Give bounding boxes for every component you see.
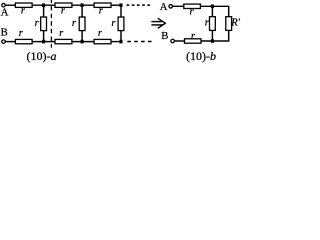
terminal B (left circuit) [2, 40, 6, 44]
wire dashed continuation bottom [127, 41, 152, 43]
wire dashed continuation top [127, 4, 152, 6]
resistor r2 top series [55, 3, 72, 7]
resistor r4 bottom series [15, 39, 32, 43]
resistor r1 top series [15, 3, 32, 7]
resistor r5 bottom series [55, 39, 72, 43]
resistor r shunt 3 [118, 5, 124, 41]
svg-text:B: B [161, 31, 168, 42]
node dot bottom 2 [81, 40, 84, 44]
node dot top right [211, 5, 214, 9]
node dot top 3 [119, 3, 122, 7]
resistor r bottom series (right) [185, 39, 202, 43]
wire right top seg2 [200, 5, 229, 7]
wire bottom rail seg3 [72, 41, 94, 43]
wire bottom rail seg1 [5, 41, 15, 43]
resistor r6 bottom series [94, 39, 111, 43]
wire top rail seg1 [5, 4, 15, 6]
svg-text:R′: R′ [230, 17, 240, 28]
svg-text:(10)-a: (10)-a [27, 49, 57, 63]
node dot bottom right [211, 39, 214, 43]
resistor r shunt (right) [210, 6, 216, 41]
wire top rail seg3 [72, 4, 94, 6]
node dot top 2 [81, 3, 84, 7]
svg-text:A: A [160, 2, 168, 13]
node dot bottom 3 [119, 40, 122, 44]
node dot top 1 [42, 3, 45, 7]
svg-text:B: B [1, 28, 8, 39]
implies arrow [151, 18, 165, 28]
wire top rail seg4 [111, 4, 122, 6]
dashed section line [50, 0, 52, 48]
resistor r3 top series [94, 3, 111, 7]
resistor r shunt 2 [79, 5, 85, 41]
resistor R prime [226, 6, 232, 41]
node dot bottom 1 [42, 40, 45, 44]
wire bottom rail seg4 [111, 41, 122, 43]
terminal A (left circuit) [2, 3, 6, 7]
wire right bottom seg1 [174, 40, 184, 42]
svg-text:A: A [1, 8, 9, 19]
wire bottom rail seg2 [32, 41, 55, 43]
terminal A (right circuit) [169, 5, 173, 9]
resistor r shunt 1 [41, 5, 47, 41]
resistor r top series (right) [184, 4, 201, 8]
wire right bottom seg2 [201, 40, 229, 42]
terminal B (right circuit) [171, 39, 175, 43]
wire right top seg1 [172, 5, 184, 7]
svg-text:(10)-b: (10)-b [186, 49, 216, 63]
wire top rail seg2 [32, 4, 55, 6]
